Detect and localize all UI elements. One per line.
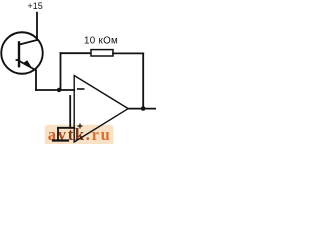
node dot output [141, 106, 146, 111]
capacitor stub vertical [69, 96, 71, 128]
svg-text:10 кОм: 10 кОм [84, 36, 118, 47]
wire emitter vertical [35, 70, 37, 90]
wire inverting input horizontal [36, 89, 74, 91]
minus sign [77, 88, 85, 90]
transistor Q1 circle [1, 32, 43, 74]
wire resistor right [113, 52, 143, 54]
base stub [17, 59, 19, 61]
wire feedback right vertical [142, 53, 144, 108]
node dot inverting input [57, 88, 61, 92]
resistor R1 body [91, 50, 113, 56]
transistor base bar [18, 42, 20, 66]
wire resistor left [61, 52, 92, 54]
wire ground stem [57, 128, 59, 140]
watermark background box [45, 125, 114, 146]
emitter arrowhead [23, 60, 33, 69]
emitter line [20, 61, 36, 70]
wire +15 vertical [36, 13, 38, 40]
wire feedback left vertical [60, 53, 62, 90]
wire non-inverting input [58, 127, 74, 129]
ground bar [53, 139, 68, 141]
wire collector diagonal [20, 40, 38, 45]
svg-text:+15: +15 [28, 1, 43, 11]
wire output [128, 108, 156, 110]
op-amp U1 triangle [74, 76, 128, 143]
plus sign [78, 124, 83, 129]
